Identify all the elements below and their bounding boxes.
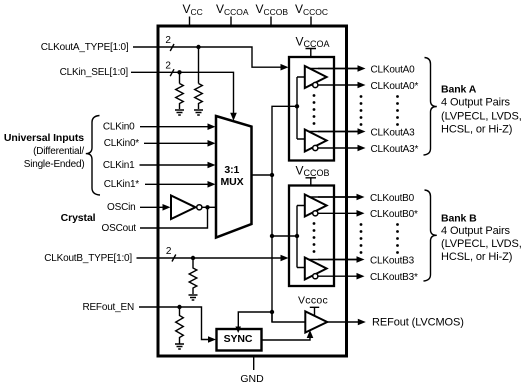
wire OSCin: [140, 206, 164, 208]
wire SYNC output: [262, 336, 311, 340]
dots bank B internal: [313, 222, 316, 253]
buffer REFout: [305, 311, 327, 332]
junction dot on vertical at bank B branch: [270, 234, 274, 238]
wire to pull resistor R2: [198, 47, 200, 84]
svg-text:GND: GND: [240, 373, 264, 385]
ground R3: [189, 295, 198, 300]
svg-text:HCSL, or Hi-Z): HCSL, or Hi-Z): [441, 124, 512, 136]
dots bank B outputs col2: [396, 223, 399, 254]
svg-text:CCOA: CCOA: [224, 7, 249, 17]
bubble buffer B bottom: [313, 274, 318, 279]
wire bank B branch: [272, 235, 297, 237]
wire VCCOB stub: [270, 17, 272, 26]
junction dot bank B feed: [295, 234, 299, 238]
svg-text:OSCout: OSCout: [102, 223, 137, 234]
dots bank A outputs col1: [360, 95, 363, 126]
arrowhead CLKoutA_TYPE into Bank A: [281, 64, 289, 71]
svg-text:(LVPECL, LVDS,: (LVPECL, LVDS,: [441, 110, 522, 122]
wire REFout: [327, 321, 359, 323]
svg-text:Crystal: Crystal: [61, 212, 96, 224]
wire CLKoutA0: [310, 68, 359, 70]
wire OSCout: [140, 209, 208, 228]
junction dot REFout_EN: [177, 305, 181, 309]
svg-text:CLKin1*: CLKin1*: [104, 179, 140, 190]
wire CLKoutA_TYPE: [133, 47, 283, 67]
wire SYNC feed: [238, 312, 272, 329]
wire CLKoutA0*: [311, 84, 359, 86]
junction dot CLKoutA_TYPE: [196, 45, 200, 49]
dots bank B outputs col1: [360, 223, 363, 254]
wire MUX output: [252, 174, 273, 176]
arrowhead CLKin0: [208, 123, 216, 130]
ground R2: [194, 110, 203, 115]
arrowhead CLKoutB_TYPE into Bank B: [281, 255, 289, 262]
svg-text:2: 2: [165, 35, 171, 46]
svg-text:CLKoutA3: CLKoutA3: [371, 127, 416, 138]
wire CLKoutA3*: [312, 147, 359, 149]
svg-text:MUX: MUX: [220, 176, 243, 188]
svg-text:Single-Ended): Single-Ended): [24, 159, 85, 170]
svg-text:CCOB: CCOB: [304, 168, 330, 178]
arrowhead SYNC feed down: [235, 327, 241, 334]
arrowhead CLKoutA3*: [358, 145, 366, 152]
arrowhead CLKin1*: [208, 181, 216, 188]
buffer B bottom: [305, 258, 327, 280]
arrowhead CLKoutA3: [358, 128, 366, 135]
svg-text:V: V: [256, 2, 264, 16]
arrowhead SYNC into REFout buffer: [307, 330, 314, 338]
svg-text:HCSL, or Hi-Z): HCSL, or Hi-Z): [441, 251, 512, 263]
svg-text:Universal Inputs: Universal Inputs: [4, 132, 84, 144]
wire CLKoutB0: [310, 196, 357, 198]
junction dot CLKoutB_TYPE: [191, 256, 195, 260]
svg-text:CLKin0*: CLKin0*: [104, 138, 140, 149]
dots bank A internal: [313, 94, 316, 125]
wire distribution vertical: [272, 106, 297, 322]
svg-text:(Differential/: (Differential/: [33, 146, 84, 157]
bank B box: [289, 186, 334, 287]
arrowhead REFout_EN into SYNC: [208, 336, 216, 343]
svg-text:V: V: [296, 35, 304, 49]
svg-text:CLKoutB3*: CLKoutB3*: [370, 272, 418, 283]
power tap T bank B: [306, 178, 317, 185]
svg-text:4 Output Pairs: 4 Output Pairs: [441, 225, 511, 237]
svg-text:4 Output Pairs: 4 Output Pairs: [441, 97, 511, 109]
wire bank A input vertical: [297, 77, 305, 139]
wire CLKoutB3*: [311, 275, 357, 277]
arrowhead CLKoutB3: [357, 256, 365, 263]
svg-text:CLKoutB_TYPE[1:0]: CLKoutB_TYPE[1:0]: [44, 253, 132, 264]
svg-text:REFout (LVCMOS): REFout (LVCMOS): [372, 317, 464, 329]
buffer B top: [305, 195, 327, 217]
ground R4: [175, 344, 184, 349]
junction dot CLKin_SEL: [177, 70, 181, 74]
svg-text:CLKin1: CLKin1: [103, 160, 135, 171]
wire VCCOC stub: [310, 17, 312, 26]
arrowhead CLKoutB0: [357, 194, 365, 201]
svg-text:SYNC: SYNC: [224, 333, 253, 345]
svg-text:REFout_EN: REFout_EN: [82, 302, 134, 313]
bank A box: [289, 57, 334, 161]
block SYNC: [217, 329, 262, 351]
svg-text:CLKoutB3: CLKoutB3: [370, 255, 415, 266]
wire inverter to MUX: [202, 206, 216, 208]
svg-text:CCOA: CCOA: [304, 39, 330, 49]
svg-text:CLKoutA0: CLKoutA0: [371, 64, 416, 75]
resistor R2 (CLKoutA_TYPE pulldown): [195, 84, 203, 110]
buffer A bottom: [305, 130, 327, 152]
wire CLKin1*: [145, 183, 209, 185]
svg-text:CLKoutA3*: CLKoutA3*: [371, 144, 419, 155]
wire REFout_EN: [139, 307, 210, 340]
svg-text:V: V: [296, 164, 304, 178]
wire VCC stub: [189, 17, 191, 26]
ground R1: [175, 110, 184, 115]
arrowhead CLKoutA0*: [358, 82, 366, 89]
svg-text:V: V: [295, 2, 303, 16]
resistor R4 (REFout_EN pulldown): [176, 307, 184, 344]
wire to pull resistor R1: [179, 72, 181, 83]
brace bank A: [424, 58, 437, 156]
wire CLKoutB0*: [311, 212, 357, 214]
svg-text:CCOC: CCOC: [303, 7, 328, 17]
arrowhead CLKin1: [208, 162, 216, 169]
svg-text:CLKin0: CLKin0: [103, 122, 135, 133]
arrowhead CLKoutB0*: [357, 210, 365, 217]
resistor R1 (CLKin_SEL pulldown): [176, 84, 184, 110]
main chip box: [158, 26, 347, 356]
junction dot SYNC branch: [270, 310, 274, 314]
power tap T REFout buffer: [310, 307, 319, 315]
mux U3 3:1 MUX: [216, 116, 252, 238]
wire CLKoutB3: [309, 259, 357, 261]
svg-text:2: 2: [166, 246, 172, 257]
svg-text:CLKoutA_TYPE[1:0]: CLKoutA_TYPE[1:0]: [41, 42, 129, 53]
dots bank A outputs col2: [396, 95, 399, 126]
svg-text:CLKoutB0: CLKoutB0: [370, 193, 415, 204]
resistor R3 (CLKoutB_TYPE pulldown): [189, 258, 197, 294]
brace universal inputs: [86, 116, 100, 196]
svg-text:CLKoutB0*: CLKoutB0*: [370, 209, 418, 220]
svg-text:CC: CC: [191, 7, 203, 17]
arrowhead REFout: [358, 319, 366, 326]
junction dot MUX output: [270, 173, 274, 177]
junction dot oscillator output: [205, 205, 209, 209]
svg-text:3:1: 3:1: [224, 164, 239, 176]
bubble buffer A top: [313, 82, 318, 87]
svg-text:CCOB: CCOB: [264, 7, 289, 17]
wire REFout buffer input: [272, 312, 305, 322]
svg-text:V: V: [183, 2, 191, 16]
svg-text:CLKin_SEL[1:0]: CLKin_SEL[1:0]: [60, 67, 129, 78]
wire VCCOA stub: [230, 17, 232, 26]
svg-text:(LVPECL, LVDS,: (LVPECL, LVDS,: [441, 238, 522, 250]
arrowhead OSCin: [163, 204, 171, 211]
inverter U2 crystal oscillator: [171, 196, 196, 220]
svg-text:2: 2: [165, 61, 171, 72]
junction dot bank A feed: [295, 104, 299, 108]
wire CLKin0: [140, 126, 209, 128]
wire CLKin0*: [144, 142, 209, 144]
wire CLKoutA3: [309, 131, 359, 133]
svg-text:V: V: [216, 2, 224, 16]
svg-text:OSCin: OSCin: [107, 202, 135, 213]
wire GND stub: [253, 357, 255, 370]
buffer A top: [305, 66, 327, 88]
wire CLKoutB_TYPE: [137, 257, 284, 259]
wire bank B input vertical: [297, 206, 305, 268]
brace bank B: [424, 190, 437, 281]
svg-text:Bank B: Bank B: [441, 212, 477, 224]
svg-text:Bank A: Bank A: [441, 83, 477, 95]
arrowhead CLKin0*: [208, 140, 216, 147]
bubble buffer B top: [313, 211, 318, 216]
inverter output bubble: [197, 205, 202, 210]
svg-text:Vccoc: Vccoc: [298, 295, 328, 307]
arrowhead CLKoutB3*: [357, 273, 365, 280]
wire CLKin1: [140, 164, 210, 166]
arrowhead CLKoutA0: [358, 65, 366, 72]
wire CLKin_SEL: [131, 72, 234, 114]
bubble buffer A bottom: [313, 145, 318, 150]
svg-text:CLKoutA0*: CLKoutA0*: [371, 81, 419, 92]
power tap T bank A: [306, 49, 317, 57]
arrowhead CLKin_SEL into MUX select: [230, 113, 237, 121]
